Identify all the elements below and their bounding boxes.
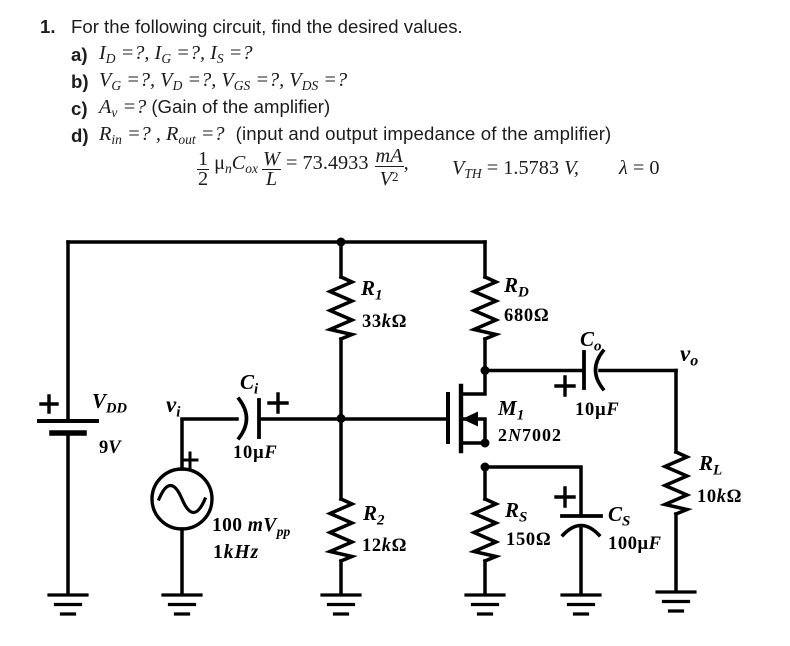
wire source to CS	[485, 467, 581, 514]
problem statement text	[40, 16, 56, 38]
ground (vi source)	[163, 595, 201, 614]
svg-text:CS: CS	[608, 502, 630, 530]
node drain	[481, 366, 490, 375]
svg-text:10kΩ: 10kΩ	[697, 487, 742, 507]
svg-text:12kΩ: 12kΩ	[362, 536, 407, 556]
svg-text:Co: Co	[580, 327, 602, 355]
svg-text:VDD: VDD	[92, 389, 127, 417]
node gate bias junction	[337, 414, 346, 423]
svg-text:Ci: Ci	[240, 370, 259, 398]
wire vi to gate node	[182, 419, 237, 469]
wire Co to vo	[600, 369, 676, 373]
wire VDD left vertical	[66, 242, 70, 419]
svg-text:1kHz: 1kHz	[213, 542, 259, 563]
svg-text:150Ω: 150Ω	[506, 530, 551, 550]
node source	[481, 463, 490, 472]
ground (battery)	[49, 595, 87, 614]
ground (RS)	[466, 595, 504, 614]
svg-text:100μF: 100μF	[608, 534, 662, 554]
svg-text:10μF: 10μF	[575, 400, 620, 420]
transistor M1	[448, 370, 485, 451]
given equation line	[197, 147, 409, 189]
resistor RL	[665, 371, 687, 591]
capacitor CS	[556, 488, 601, 535]
node top rail junction	[337, 238, 346, 247]
svg-text:R2: R2	[362, 501, 385, 529]
svg-text:100 mVpp: 100 mVpp	[212, 515, 290, 539]
svg-text:RL: RL	[698, 451, 722, 479]
svg-text:2N7002: 2N7002	[498, 425, 562, 445]
svg-text:33kΩ: 33kΩ	[362, 312, 407, 332]
resistor RD	[474, 242, 496, 370]
source vi	[152, 453, 212, 529]
svg-text:M1: M1	[497, 396, 524, 424]
wire battery to ground	[66, 435, 70, 593]
svg-text:vi: vi	[166, 392, 181, 421]
capacitor Ci	[239, 394, 287, 438]
capacitor Co	[556, 351, 603, 395]
wire top rail	[68, 240, 485, 244]
node source-body junction	[481, 439, 490, 448]
svg-text:R1: R1	[360, 276, 383, 304]
svg-text:10μF: 10μF	[233, 443, 278, 463]
resistor RS	[474, 467, 496, 593]
wire CS to ground	[579, 528, 583, 593]
wire vi to ground	[180, 529, 184, 593]
ground (R2)	[322, 595, 360, 614]
resistor R1	[330, 242, 352, 419]
ground (CS)	[562, 595, 600, 614]
svg-text:vo: vo	[680, 341, 698, 370]
svg-text:9V: 9V	[99, 438, 122, 458]
svg-text:RS: RS	[504, 498, 527, 526]
ground (RL)	[657, 592, 695, 611]
svg-text:RD: RD	[503, 273, 529, 301]
resistor R2	[330, 419, 352, 594]
svg-text:680Ω: 680Ω	[504, 306, 549, 326]
wire drain to Co	[485, 369, 582, 373]
battery VDD	[39, 396, 97, 433]
wire Ci to gate bar	[261, 417, 446, 421]
